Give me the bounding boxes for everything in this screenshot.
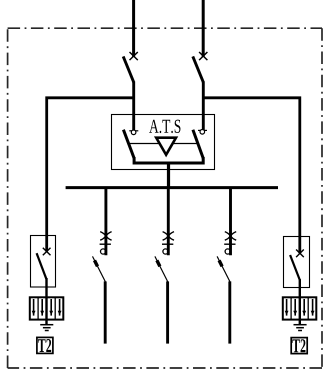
feeder 1 (93, 188, 112, 344)
breaker contact X: source 1 (130, 52, 138, 60)
switch blade: feeder 1 (93, 256, 106, 281)
arrester cell dividers right (290, 297, 292, 319)
contact tick: feeder 2 (162, 243, 173, 245)
wire: left breaker to arrester box (45, 278, 47, 324)
switch blade: right branch (290, 255, 300, 280)
ATS terminal tick right (198, 129, 207, 131)
arrester element 2 (41, 299, 43, 316)
ATS automatic-transfer triangle (156, 138, 176, 155)
arrester element 1 (286, 299, 288, 316)
switch blade: source 1 (123, 56, 134, 82)
arrester element 2 (294, 299, 296, 316)
arrester element 4 (59, 299, 61, 316)
loop (CT hook): feeder 2 (163, 249, 168, 254)
arrester element 4 (312, 299, 314, 316)
wire: feeder 3 upper (229, 188, 232, 256)
label T2 left (38, 339, 51, 352)
ATS mid connecting line (128, 143, 197, 145)
label box T2 right (291, 338, 307, 354)
left surge arrester box (30, 297, 64, 319)
wire: incoming source 1 from top (132, 0, 135, 57)
ground symbol left (40, 325, 53, 331)
right branch breaker enclosure (284, 237, 310, 288)
wire: feeder 1 upper (104, 188, 107, 256)
arrester cell dividers left (37, 297, 39, 319)
ATS terminal circle left (131, 130, 136, 135)
loop (CT hook): feeder 3 (225, 249, 230, 254)
switch blade: feeder 3 (217, 256, 230, 281)
arrester element 3 (303, 299, 305, 316)
wire: tap from source 2 to right arrester branch (203, 98, 300, 253)
contact tick: feeder 3 (224, 243, 235, 245)
left branch breaker enclosure (31, 236, 56, 288)
switch blade: feeder 2 (155, 256, 168, 281)
ATS blade left (123, 130, 134, 159)
ATS terminal tick left (129, 130, 138, 132)
withdrawable chevrons: feeder 2 (163, 232, 174, 237)
switch blade: source 2 (193, 56, 204, 82)
wire: incoming source 2 from top (202, 0, 205, 57)
breaker contact X: source 2 (199, 52, 207, 60)
ATS common bar (134, 157, 203, 163)
wire: source 1 blade to ATS terminal (132, 82, 135, 131)
withdrawable chevrons: feeder 3 (225, 232, 236, 237)
fuse blob on blade: feeder 2 (157, 260, 160, 266)
wire: feeder 2 lower (166, 281, 169, 343)
label box T2 left (37, 337, 53, 353)
fuse blob on blade: feeder 3 (219, 260, 222, 266)
contact tick: feeder 1 (100, 243, 111, 245)
wire: right breaker to arrester box (299, 279, 301, 324)
ATS enclosure box (112, 115, 215, 170)
feeder 2 (155, 188, 174, 344)
ground symbol right (294, 325, 307, 331)
breaker contact X: right branch (296, 250, 304, 258)
arrester element 3 (50, 299, 52, 316)
wire: feeder 3 lower (228, 281, 231, 343)
fuse blob on blade: feeder 1 (95, 260, 98, 266)
switch blade: left branch (37, 253, 47, 279)
wire: tap from source 1 to left arrester branch (47, 98, 134, 252)
wire: feeder 2 upper (167, 188, 170, 256)
withdrawable chevrons: feeder 1 (100, 232, 111, 237)
wire: source 2 blade to ATS terminal (202, 82, 205, 131)
wire: ATS output to busbar (167, 163, 170, 190)
wire: feeder 1 lower (104, 281, 107, 343)
ATS label A.T.S (149, 120, 180, 133)
right surge arrester box (283, 297, 317, 319)
ATS terminal circle right (200, 130, 205, 135)
busbar (66, 186, 278, 189)
arrester element 1 (33, 299, 35, 316)
feeder 3 (217, 188, 236, 344)
breaker contact X: left branch (43, 248, 51, 256)
loop (CT hook): feeder 1 (101, 249, 106, 254)
label T2 right (292, 339, 305, 352)
ATS blade right (193, 130, 203, 159)
